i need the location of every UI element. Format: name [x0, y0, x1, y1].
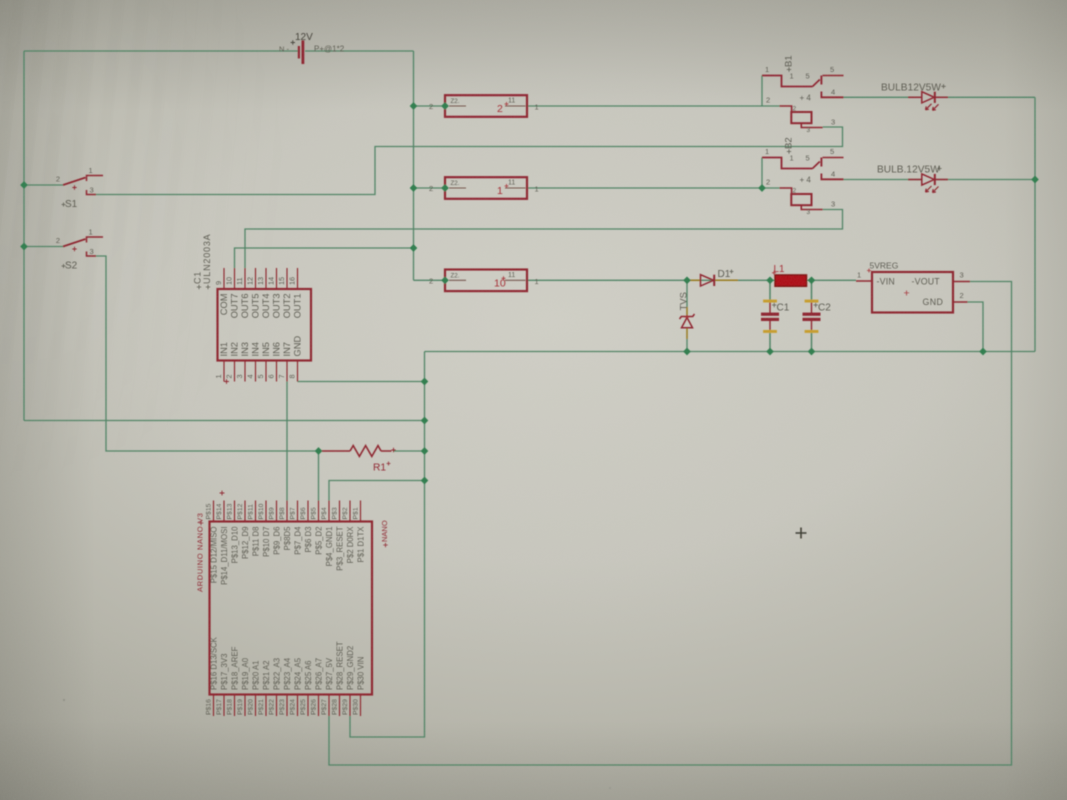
relay B2 coil box	[791, 194, 811, 205]
IC arduino nano box	[210, 522, 373, 695]
wire B1 pin 4 to bulb LED1	[844, 96, 922, 98]
ULN2003A pin 15 stub	[286, 268, 288, 289]
arduino top pin P$1 stub	[360, 501, 362, 522]
arduino top pin P$6 stub	[307, 501, 309, 522]
relay B2 contact 5 bar	[820, 158, 822, 167]
wire TVS top lead	[686, 307, 688, 316]
relay coil box value 1	[445, 177, 527, 199]
relay coil box value 2	[445, 95, 527, 117]
junction C2 top	[808, 276, 816, 284]
arduino bottom pin P$25 stub	[307, 695, 309, 717]
junction S1	[20, 181, 28, 189]
relay B1 contact 5 bar	[820, 76, 822, 85]
junction VREG GND	[979, 348, 987, 356]
wire C2 bottom lead	[811, 333, 813, 352]
junction K1 pin2	[441, 102, 449, 110]
ULN2003A pin 13 stub	[265, 268, 267, 289]
wire battery negative to left rail	[24, 50, 298, 52]
junction TVS bottom	[683, 348, 691, 356]
diode TVS	[680, 314, 695, 328]
wire rail to switch S2 pin 2	[24, 246, 63, 248]
ULN2003A pin 8 stub	[297, 361, 299, 382]
switch S1	[63, 176, 103, 195]
ULN2003A pin 12 stub	[255, 268, 257, 289]
junction TVS top	[683, 276, 691, 284]
wire R1 node to arduino P$5	[318, 451, 320, 501]
ULN2003A pin 1 stub	[223, 361, 225, 382]
cursor crosshair	[796, 528, 807, 539]
wire rail to relay coil K2 pin 2	[414, 187, 446, 189]
junction left rail GND	[421, 417, 429, 425]
relay B2 pin 5 lead	[823, 157, 844, 159]
arduino bottom pin P$29 stub	[349, 695, 351, 717]
arduino bottom pin P$18 stub	[234, 695, 236, 717]
arduino bottom pin P$27 stub	[328, 695, 330, 717]
wire S1 pin 3 to relay B1 coil pin 3	[96, 127, 843, 195]
wire main 12V vertical rail	[413, 51, 415, 280]
arduino top pin P$11 stub	[255, 501, 257, 522]
wire bulb LED2 to right rail	[936, 179, 1036, 181]
wire ULN2003 OUT7 pin 10 to 12V rail	[235, 248, 414, 268]
voltage regulator 5VREG box	[872, 272, 953, 313]
bulb LED BULB.12V5W	[908, 174, 948, 193]
wire B2 pin 4 to bulb LED2	[844, 179, 922, 181]
relay coil box value 10	[445, 270, 527, 292]
arduino bottom pin P$24 stub	[297, 695, 299, 717]
arduino top pin P$15 stub	[213, 501, 215, 522]
wire relay coil K2 pin 1 to relay B2	[527, 187, 780, 189]
arduino bottom pin P$19 stub	[244, 695, 246, 717]
wire TVS bottom net	[686, 339, 688, 352]
junction C1 top	[766, 276, 774, 284]
arduino bottom pin P$22 stub	[276, 695, 278, 717]
junction rail OUT7	[410, 244, 418, 252]
ULN2003A pin 14 stub	[276, 268, 278, 289]
arduino top pin P$13 stub	[234, 501, 236, 522]
junction C1 bottom	[766, 348, 774, 356]
relay B1 coil box	[791, 112, 811, 123]
ULN2003A pin 5 stub	[265, 361, 267, 382]
arduino bottom pin P$28 stub	[339, 695, 341, 717]
wire rail to relay coil K1 pin 2	[414, 105, 446, 107]
wire S2 pin 3 to R1 node	[96, 256, 319, 451]
arduino top pin P$3 stub	[339, 501, 341, 522]
junction S2	[20, 243, 28, 251]
arduino top pin P$12 stub	[244, 501, 246, 522]
wire TVS bottom lead	[686, 328, 688, 340]
relay B1 coil exit lead pin 3	[801, 123, 822, 127]
IC U1 ULN2003A box	[218, 289, 312, 361]
relay B2 coil entry lead	[780, 188, 792, 194]
wire right vertical rail bulbs	[1034, 97, 1036, 351]
wire VREG GND pin 2 to ground rail	[968, 302, 984, 352]
relay B1 contact 4	[821, 92, 843, 98]
wire TVS top net	[686, 280, 688, 307]
relay B2 coil exit lead pin 3	[801, 205, 822, 209]
arduino bottom pin P$17 stub	[223, 695, 225, 717]
relay B2 common contact pin 1	[762, 158, 813, 169]
ULN2003A pin 4 stub	[255, 361, 257, 382]
wire ground net to arduino P$4	[329, 481, 425, 501]
resistor R1	[320, 446, 396, 457]
battery 12V supply	[291, 40, 303, 64]
junction K2 pin2	[441, 184, 449, 192]
arduino top pin P$2 stub	[349, 501, 351, 522]
junction C2 bottom	[808, 348, 816, 356]
relay B1 switch arm	[813, 80, 820, 87]
relay B2 contact 4	[821, 174, 843, 180]
junction B2 pin2	[758, 184, 766, 192]
wire ULN2003 OUT6 pin 11 to relay B2 coil pin 3	[245, 210, 843, 269]
bulb LED BULB12V5W	[908, 92, 948, 111]
arduino top pin P$14 stub	[223, 501, 225, 522]
coil 10 internal pin lines	[449, 279, 466, 281]
VREG pin 2 lead	[953, 301, 968, 303]
junction rail K2	[410, 184, 418, 192]
wire left vertical rail	[23, 51, 25, 421]
coil 2 internal pin lines	[449, 105, 466, 107]
ULN2003A pin 3 stub	[244, 361, 246, 382]
wire C1 bottom lead	[769, 333, 771, 352]
wire relay B1 pin 1 to pin 2	[761, 76, 763, 107]
wire R1 to ground net	[393, 450, 425, 452]
arduino top pin P$5 stub	[318, 501, 320, 522]
relay B1 pin 5 lead	[823, 75, 844, 77]
ULN2003A pin 2 stub	[234, 361, 236, 382]
relay B2 switch arm	[813, 162, 820, 169]
ULN2003A pin 16 stub	[297, 268, 299, 289]
wire C1 top lead	[769, 280, 771, 300]
VREG pin 3 lead	[953, 281, 970, 283]
arduino bottom pin P$20 stub	[255, 695, 257, 717]
wire bottom ground rail of power section	[425, 351, 1036, 353]
ULN2003A pin 10 stub	[234, 268, 236, 289]
arduino bottom pin P$16 stub	[213, 695, 215, 717]
ULN2003A pin 6 stub	[276, 361, 278, 382]
arduino bottom pin P$30 stub	[360, 695, 362, 717]
dust speck 2	[609, 787, 611, 789]
wire TVS node to D1 and VREG VIN	[687, 279, 856, 281]
diode D1	[688, 275, 738, 286]
arduino top pin P$4 stub	[328, 501, 330, 522]
arduino top pin P$9 stub	[276, 501, 278, 522]
junction S2 R1	[315, 447, 323, 455]
junction K3 pin2	[441, 276, 449, 284]
coil 1 internal pin lines	[449, 187, 466, 189]
wire ULN2003 pin 7 to arduino P$8	[286, 382, 288, 501]
wire bulb LED1 to right rail	[936, 96, 1036, 98]
junction bulbs rail	[1031, 176, 1039, 184]
capacitor C1	[761, 300, 779, 333]
relay B1 common contact pin 1	[762, 76, 813, 87]
wire left rail to ground net	[24, 420, 425, 422]
wire relay coil K1 pin 1 to relay B1	[527, 105, 780, 107]
VREG pin 1 lead	[856, 280, 872, 282]
wire relay coil K3 pin 1 to TVS node	[527, 279, 687, 281]
junction R1 GND	[421, 447, 429, 455]
arduino top pin P$8 stub	[286, 501, 288, 522]
junction rail K1	[410, 102, 418, 110]
wire rail to switch S1 pin 2	[24, 184, 63, 186]
ULN2003A pin 7 stub	[286, 361, 288, 382]
ULN2003A pin 11 stub	[244, 268, 246, 289]
wire relay B2 pin 1 to pin 2	[761, 158, 763, 189]
arduino bottom pin P$23 stub	[286, 695, 288, 717]
arduino bottom pin P$26 stub	[318, 695, 320, 717]
arduino top pin P$10 stub	[265, 501, 267, 522]
capacitor C2	[803, 300, 821, 333]
junction ULN GND	[421, 378, 429, 386]
wire rail to relay coil K3 pin 2	[414, 279, 446, 281]
relay B1 coil entry lead	[780, 106, 792, 112]
wire battery positive to main 12V rail	[305, 50, 414, 52]
arduino origin cross near P$14	[220, 491, 225, 496]
arduino bottom pin P$21 stub	[265, 695, 267, 717]
wire ground net vertical to P$29 GND2	[350, 352, 425, 738]
wire ULN2003 GND pin 8 to ground net	[298, 381, 425, 383]
ULN2003A pin 1 origin cross	[224, 379, 229, 384]
inductor L1	[775, 275, 807, 286]
arduino top pin P$7 stub	[297, 501, 299, 522]
dust speck	[63, 699, 65, 701]
ULN2003A pin 9 stub	[223, 268, 225, 289]
wire VREG VOUT pin 3 to arduino P$27 5V	[329, 282, 1012, 766]
wire C2 top lead	[811, 280, 813, 300]
junction P$4 GND	[421, 477, 429, 485]
switch S2	[63, 237, 103, 256]
